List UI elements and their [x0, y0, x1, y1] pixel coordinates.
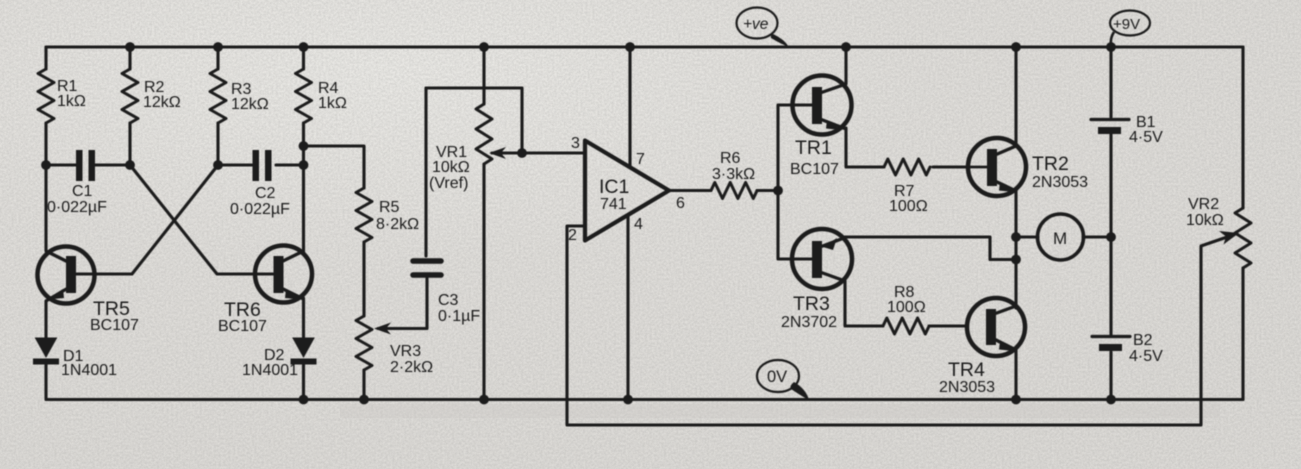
- svg-text:VR3: VR3: [390, 343, 421, 360]
- svg-text:TR6: TR6: [224, 299, 261, 321]
- svg-text:R6: R6: [720, 150, 741, 167]
- svg-text:TR2: TR2: [1032, 153, 1069, 175]
- svg-text:12kΩ: 12kΩ: [231, 96, 269, 113]
- svg-text:BC107: BC107: [790, 161, 839, 178]
- svg-text:1kΩ: 1kΩ: [57, 93, 86, 110]
- svg-text:2·2kΩ: 2·2kΩ: [390, 359, 433, 376]
- svg-text:0V: 0V: [767, 368, 787, 386]
- svg-text:10kΩ: 10kΩ: [432, 159, 470, 176]
- svg-text:TR4: TR4: [948, 359, 985, 381]
- svg-text:1N4001: 1N4001: [242, 362, 298, 379]
- svg-text:TR1: TR1: [795, 137, 832, 159]
- svg-text:1kΩ: 1kΩ: [318, 95, 347, 112]
- svg-text:C3: C3: [438, 292, 459, 309]
- svg-text:10kΩ: 10kΩ: [1186, 212, 1224, 229]
- svg-text:7: 7: [636, 151, 645, 168]
- svg-text:M: M: [1053, 229, 1067, 248]
- svg-text:0·1µF: 0·1µF: [438, 308, 480, 325]
- svg-text:4·5V: 4·5V: [1129, 129, 1163, 146]
- svg-text:100Ω: 100Ω: [889, 198, 928, 215]
- svg-text:R5: R5: [379, 199, 400, 216]
- svg-text:C2: C2: [255, 185, 276, 202]
- svg-text:0·022µF: 0·022µF: [230, 201, 290, 218]
- svg-text:VR2: VR2: [1188, 196, 1219, 213]
- svg-text:1N4001: 1N4001: [61, 362, 117, 379]
- svg-text:3: 3: [571, 135, 580, 152]
- svg-text:0·022µF: 0·022µF: [47, 199, 107, 216]
- svg-text:TR3: TR3: [793, 293, 830, 315]
- svg-text:TR5: TR5: [93, 298, 130, 320]
- svg-text:+ve: +ve: [743, 16, 769, 33]
- svg-text:12kΩ: 12kΩ: [143, 94, 181, 111]
- svg-text:4: 4: [634, 216, 643, 233]
- svg-text:6: 6: [676, 195, 685, 212]
- svg-text:(Vref): (Vref): [429, 175, 468, 192]
- svg-text:C1: C1: [72, 183, 93, 200]
- svg-text:4·5V: 4·5V: [1129, 348, 1163, 365]
- svg-text:100Ω: 100Ω: [887, 299, 926, 316]
- svg-text:3·3kΩ: 3·3kΩ: [712, 166, 755, 183]
- svg-text:IC1: IC1: [599, 176, 629, 198]
- svg-text:8·2kΩ: 8·2kΩ: [376, 216, 419, 233]
- svg-text:+9V: +9V: [1113, 16, 1140, 33]
- svg-text:2N3053: 2N3053: [939, 379, 995, 396]
- svg-text:B2: B2: [1133, 332, 1153, 349]
- svg-text:2N3702: 2N3702: [781, 314, 837, 331]
- svg-text:2N3053: 2N3053: [1032, 174, 1088, 191]
- svg-text:2: 2: [568, 227, 577, 244]
- svg-text:741: 741: [600, 196, 627, 213]
